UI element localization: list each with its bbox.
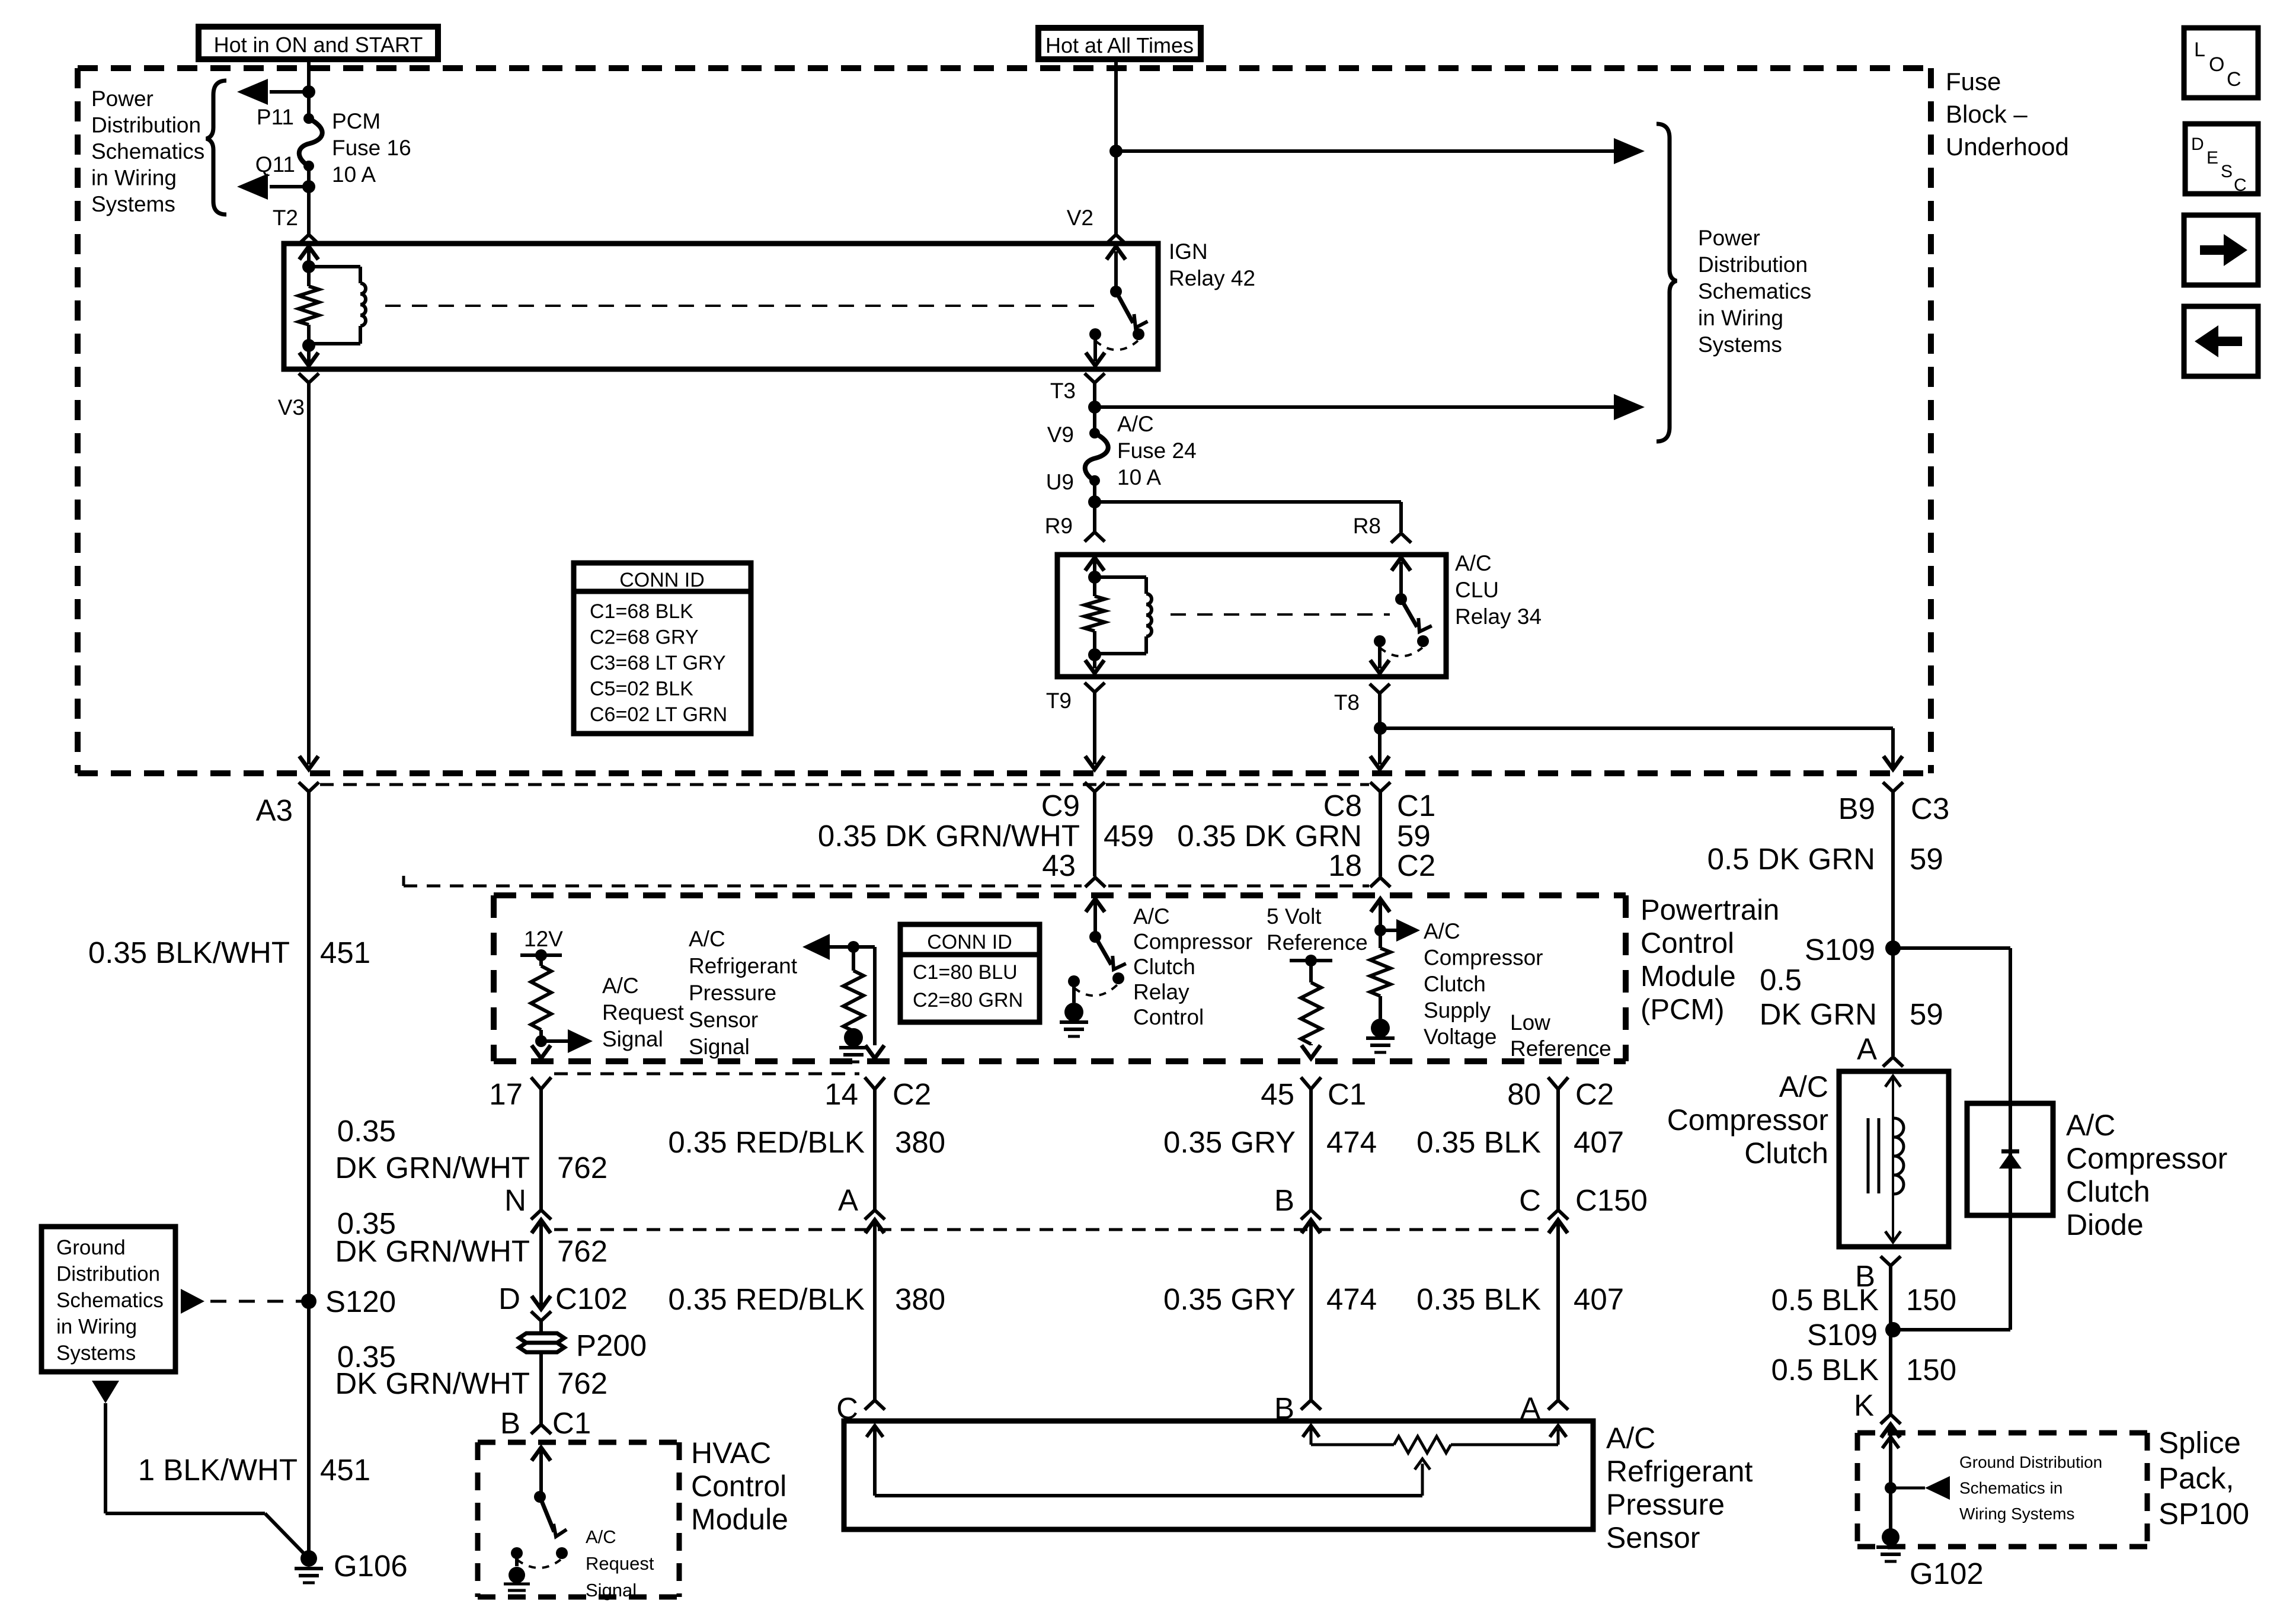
clutch internal wire with arrows (1892, 1077, 1894, 1241)
svg-text:C: C (2227, 68, 2241, 91)
svg-text:407: 407 (1574, 1282, 1624, 1316)
svg-text:474: 474 (1326, 1125, 1377, 1159)
svg-text:D: D (498, 1282, 520, 1315)
svg-text:T9: T9 (1046, 689, 1072, 713)
svg-text:0.35 RED/BLK: 0.35 RED/BLK (668, 1125, 865, 1159)
svg-text:150: 150 (1906, 1283, 1956, 1317)
arrow below Ground Distribution box to G106 (92, 1381, 119, 1403)
svg-text:Control: Control (1133, 1005, 1204, 1029)
svg-text:762: 762 (557, 1234, 607, 1268)
svg-text:Clutch: Clutch (1133, 955, 1195, 979)
svg-text:Block –: Block – (1946, 100, 2028, 128)
svg-text:10 A: 10 A (332, 162, 376, 187)
relay A/C CLU Relay 34 box (1057, 555, 1446, 677)
svg-text:0.35 DK GRN: 0.35 DK GRN (1177, 819, 1362, 853)
svg-text:Refrigerant: Refrigerant (689, 954, 798, 978)
label box: Hot at All Times (1038, 28, 1201, 59)
svg-text:Reference: Reference (1267, 930, 1368, 955)
svg-text:Low: Low (1510, 1010, 1550, 1035)
junction + arrow A/C Request Signal (535, 1035, 547, 1047)
svg-text:Power: Power (91, 87, 154, 111)
svg-text:C8: C8 (1323, 789, 1362, 822)
connector A (clutch) (1883, 1057, 1903, 1067)
IGN relay bottom arrow out (307, 345, 311, 364)
svg-text:Splice: Splice (2159, 1426, 2241, 1459)
svg-text:Systems: Systems (91, 192, 175, 216)
IGN relay resistor (307, 267, 311, 286)
svg-text:C1: C1 (1397, 789, 1435, 822)
svg-text:CONN ID: CONN ID (927, 931, 1012, 953)
CLU relay coil to switch dashed link (1171, 613, 1390, 616)
wire down to pin 17 with arrow (539, 1041, 543, 1045)
connector 43 (PCM top) (1085, 878, 1105, 887)
svg-text:G106: G106 (334, 1549, 408, 1583)
legend box left-arrow (2184, 306, 2258, 376)
CLU relay resistor (1093, 577, 1096, 596)
connector T9 (1085, 683, 1105, 692)
HVAC Control Module dashed box (478, 1442, 679, 1597)
svg-text:C1=80 BLU: C1=80 BLU (913, 961, 1018, 984)
svg-text:B: B (1274, 1183, 1294, 1217)
svg-text:Compressor: Compressor (1667, 1103, 1828, 1137)
connector pin 17 (531, 1077, 551, 1089)
svg-text:459: 459 (1104, 819, 1154, 853)
svg-text:S109: S109 (1807, 1318, 1878, 1352)
svg-text:0.35 DK GRN/WHT: 0.35 DK GRN/WHT (818, 819, 1080, 853)
wire down to G102 (1889, 1488, 1892, 1537)
svg-text:A/C: A/C (2066, 1109, 2115, 1142)
svg-text:762: 762 (557, 1151, 607, 1185)
svg-text:V2: V2 (1067, 206, 1093, 230)
Fuse Block - Underhood label (1946, 68, 2069, 161)
Splice Pack SP100 dashed box (1857, 1433, 2147, 1547)
svg-text:Module: Module (1641, 961, 1736, 993)
svg-text:A/C: A/C (1424, 919, 1460, 943)
svg-text:C2: C2 (893, 1077, 931, 1111)
svg-text:Compressor: Compressor (1424, 946, 1543, 970)
svg-text:451: 451 (320, 1453, 370, 1487)
brace right (power distribution group) (1657, 124, 1677, 441)
svg-text:43: 43 (1042, 849, 1076, 882)
wire S109 down to clutch, label A (1891, 948, 1895, 1056)
CLU relay coil (parallel) (1095, 575, 1146, 579)
svg-text:A/C: A/C (689, 927, 725, 951)
CLU relay coil input arrow (1093, 559, 1096, 577)
brace left (power distribution group) (206, 81, 226, 215)
svg-text:C2=68 GRY: C2=68 GRY (590, 626, 699, 649)
svg-text:C2: C2 (1397, 849, 1435, 882)
svg-text:0.5 DK GRN: 0.5 DK GRN (1707, 842, 1875, 876)
svg-text:S: S (2221, 162, 2233, 181)
svg-text:Control: Control (1641, 927, 1734, 959)
svg-text:C1: C1 (1328, 1077, 1366, 1111)
fuse A/C Fuse 24 10 A (1089, 428, 1100, 438)
CONN ID table (PCM) (900, 924, 1040, 1022)
svg-text:DK GRN/WHT: DK GRN/WHT (335, 1366, 530, 1400)
connector pin 45 / C1 (1301, 1077, 1321, 1089)
svg-text:Compressor: Compressor (1133, 930, 1253, 954)
svg-text:CLU: CLU (1455, 578, 1499, 602)
svg-text:A/C: A/C (1133, 904, 1170, 929)
svg-text:10 A: 10 A (1117, 465, 1161, 489)
svg-text:R8: R8 (1353, 514, 1381, 538)
svg-text:in Wiring: in Wiring (1698, 306, 1783, 330)
svg-text:0.5: 0.5 (1760, 963, 1802, 997)
svg-text:0.35 BLK/WHT: 0.35 BLK/WHT (88, 936, 290, 969)
svg-text:Signal: Signal (586, 1580, 637, 1601)
svg-text:Clutch: Clutch (2066, 1175, 2150, 1208)
svg-text:C1=68 BLK: C1=68 BLK (590, 600, 693, 623)
svg-text:DK GRN/WHT: DK GRN/WHT (335, 1234, 530, 1268)
svg-text:C6=02 LT GRN: C6=02 LT GRN (590, 703, 727, 726)
connector row dashed line (below PCM, pins 17-14) (554, 1073, 859, 1076)
connector V3 (299, 373, 319, 383)
relay IGN Relay 42 box (284, 244, 1158, 369)
svg-text:PCM: PCM (332, 109, 380, 133)
IGN relay coil (parallel) (309, 265, 360, 268)
resistor (clutch supply voltage) to ground (1379, 930, 1382, 948)
sensor wiper arrow (1421, 1464, 1424, 1496)
svg-text:in Wiring: in Wiring (56, 1315, 137, 1339)
svg-text:Fuse 24: Fuse 24 (1117, 438, 1197, 463)
svg-text:380: 380 (895, 1282, 945, 1316)
svg-text:A/C: A/C (1455, 551, 1492, 575)
label: Power Distribution Schematics in Wiring Systems (right) (1698, 226, 1811, 357)
wire T3 down to A/C Fuse 24 (1093, 407, 1096, 433)
svg-text:Control: Control (691, 1470, 786, 1503)
svg-text:Underhood: Underhood (1946, 133, 2069, 161)
5V reference rail bar + resistor down to pin 45 (1290, 959, 1332, 962)
arrow to Power Distribution (upper left) (270, 90, 309, 94)
svg-text:Clutch: Clutch (1424, 972, 1486, 996)
svg-text:150: 150 (1906, 1353, 1956, 1387)
svg-text:SP100: SP100 (2159, 1497, 2249, 1531)
svg-text:DK GRN: DK GRN (1760, 997, 1877, 1031)
svg-text:Request: Request (586, 1553, 654, 1574)
svg-text:C2=80 GRN: C2=80 GRN (913, 989, 1023, 1012)
svg-text:Diode: Diode (2066, 1208, 2144, 1241)
splice S120 (301, 1294, 316, 1309)
svg-text:451: 451 (320, 936, 370, 969)
svg-text:Clutch: Clutch (1744, 1137, 1828, 1170)
svg-text:Signal: Signal (602, 1027, 663, 1051)
svg-text:C2: C2 (1575, 1077, 1614, 1111)
svg-text:P11: P11 (257, 105, 294, 129)
svg-text:A/C: A/C (586, 1526, 616, 1547)
clutch plates (parallel bars) (1867, 1118, 1870, 1193)
svg-text:K: K (1854, 1388, 1874, 1422)
svg-text:S120: S120 (325, 1285, 396, 1318)
sensor pin A arrow + wire from potentiometer (1451, 1443, 1558, 1446)
svg-text:Module: Module (691, 1503, 788, 1536)
ground G102 (1882, 1528, 1900, 1546)
svg-text:A3: A3 (256, 793, 293, 827)
svg-text:R9: R9 (1045, 514, 1073, 538)
svg-text:IGN: IGN (1169, 239, 1208, 264)
A/C Compressor Clutch Diode box (1967, 1103, 2053, 1215)
connector T2 (299, 235, 319, 244)
IGN relay switch (1110, 286, 1122, 297)
wire: V2 junction right to Power Distribution arrow (1116, 149, 1614, 153)
legend box right-arrow (2184, 215, 2258, 285)
ground G106 (300, 1550, 317, 1567)
svg-text:C3=68 LT GRY: C3=68 LT GRY (590, 652, 726, 674)
svg-text:T3: T3 (1050, 379, 1076, 403)
svg-text:A/C: A/C (1606, 1422, 1655, 1455)
svg-text:Pressure: Pressure (1606, 1488, 1725, 1521)
svg-text:Hot in ON and START: Hot in ON and START (214, 33, 423, 57)
svg-text:14: 14 (824, 1077, 858, 1111)
svg-text:5 Volt: 5 Volt (1267, 904, 1322, 929)
svg-text:C1: C1 (552, 1406, 591, 1440)
svg-text:Pack,: Pack, (2159, 1461, 2234, 1495)
diode wire through box (2009, 1103, 2012, 1215)
connector K (inline) (1881, 1414, 1901, 1424)
connector A3 (299, 782, 319, 792)
svg-text:C102: C102 (555, 1282, 628, 1315)
CLU relay bottom arrow out (1093, 655, 1096, 668)
IGN relay coil to switch dashed link (385, 305, 1104, 307)
svg-text:C150: C150 (1575, 1183, 1648, 1217)
svg-text:Supply: Supply (1424, 998, 1491, 1023)
svg-text:Schematics: Schematics (56, 1289, 164, 1312)
wire: Hot at All Times down to IGN relay (1114, 59, 1118, 235)
diode symbol (2001, 1150, 2019, 1154)
Powertrain Control Module (PCM) dashed box (494, 895, 1626, 1061)
svg-text:Schematics: Schematics (91, 139, 204, 164)
label: Power Distribution Schematics in Wiring Systems (left) (91, 87, 204, 216)
svg-text:P200: P200 (576, 1329, 647, 1362)
svg-text:B9: B9 (1838, 792, 1875, 825)
svg-text:80: 80 (1507, 1077, 1541, 1111)
CONN ID table (fuse block) (574, 563, 751, 734)
svg-text:Ground Distribution: Ground Distribution (1959, 1453, 2102, 1471)
svg-text:C: C (2234, 175, 2247, 195)
wire T3 junction right to Power Distribution arrow (1088, 401, 1101, 414)
wire T8 down through fuse block edge (1370, 756, 1389, 769)
svg-text:A/C: A/C (1117, 412, 1154, 436)
connector R8 (1391, 533, 1411, 543)
connector row dashed line (fuse block underside) (320, 783, 1369, 786)
svg-text:L: L (2194, 39, 2205, 61)
svg-text:59: 59 (1910, 997, 1943, 1031)
svg-text:Schematics: Schematics (1698, 279, 1811, 303)
svg-text:Systems: Systems (56, 1342, 136, 1365)
svg-text:380: 380 (895, 1125, 945, 1159)
svg-text:DK GRN/WHT: DK GRN/WHT (335, 1151, 530, 1185)
svg-text:Fuse 16: Fuse 16 (332, 136, 411, 160)
svg-text:17: 17 (489, 1077, 523, 1111)
svg-text:A: A (1857, 1032, 1877, 1066)
svg-text:Fuse: Fuse (1946, 68, 2001, 95)
splice pack junction + arrow to Ground Distribution (1885, 1482, 1897, 1494)
svg-text:HVAC: HVAC (691, 1436, 771, 1470)
A/C Compressor Clutch box (1839, 1071, 1949, 1247)
svg-text:Schematics in: Schematics in (1959, 1479, 2062, 1497)
arrow to Power Distribution (lower left) (270, 185, 309, 188)
svg-text:0.35 GRY: 0.35 GRY (1163, 1282, 1296, 1316)
svg-text:V3: V3 (278, 395, 305, 420)
svg-text:Relay 34: Relay 34 (1455, 604, 1542, 629)
branch wire from S109 to diode column (1893, 946, 2010, 950)
svg-text:0.35 BLK: 0.35 BLK (1416, 1125, 1541, 1159)
connector T3 (1085, 373, 1105, 383)
svg-text:A/C: A/C (1779, 1070, 1828, 1103)
CLU relay switch (1395, 593, 1407, 605)
left arrow + wire (sensor signal) (802, 934, 830, 960)
svg-text:E: E (2207, 148, 2218, 168)
svg-text:Distribution: Distribution (91, 113, 201, 137)
wire B9 crossing fuse block edge (1884, 756, 1902, 769)
svg-text:Power: Power (1698, 226, 1760, 250)
connector B9 / C3 (1883, 782, 1903, 792)
svg-text:Refrigerant: Refrigerant (1606, 1455, 1753, 1488)
connector pin 14 / C2 (865, 1077, 885, 1089)
svg-text:Pressure: Pressure (689, 981, 776, 1005)
svg-text:Systems: Systems (1698, 332, 1782, 357)
svg-text:Sensor: Sensor (1606, 1521, 1700, 1554)
svg-text:Voltage: Voltage (1424, 1025, 1496, 1049)
wire down to pin 14 with arrow (873, 947, 877, 1045)
label Powertrain Control Module (PCM) (1641, 894, 1779, 1026)
svg-text:T8: T8 (1334, 690, 1360, 715)
svg-text:0.5 BLK: 0.5 BLK (1771, 1283, 1879, 1317)
svg-text:N: N (504, 1183, 526, 1217)
junction T8 to B9 branch (1374, 722, 1387, 735)
clutch coil (1894, 1118, 1904, 1194)
connector R9 (1085, 532, 1105, 542)
resistor (sensor signal) to ground (852, 947, 855, 971)
label box: Hot in ON and START (199, 27, 438, 59)
svg-text:0.35 GRY: 0.35 GRY (1163, 1125, 1296, 1159)
svg-text:Relay: Relay (1133, 980, 1189, 1004)
legend box LOC (2184, 28, 2258, 98)
svg-text:O: O (2209, 53, 2224, 76)
svg-text:0.5 BLK: 0.5 BLK (1771, 1353, 1879, 1387)
svg-text:Signal: Signal (689, 1035, 750, 1059)
svg-text:C9: C9 (1041, 789, 1080, 822)
wire C2 pin down from top, junction, arrow right (1371, 899, 1390, 912)
Fuse Block - Underhood dashed outline (78, 68, 1931, 773)
connector row dashed line (above PCM) (402, 876, 405, 886)
connector pin 80 / C2 (1548, 1077, 1568, 1089)
svg-text:1 BLK/WHT: 1 BLK/WHT (138, 1453, 298, 1487)
svg-text:Compressor: Compressor (2066, 1142, 2227, 1175)
svg-text:762: 762 (557, 1366, 607, 1400)
svg-text:Distribution: Distribution (56, 1263, 160, 1286)
IGN relay coil input arrow (307, 248, 311, 267)
svg-text:Reference: Reference (1510, 1036, 1611, 1061)
svg-text:C5=02 BLK: C5=02 BLK (590, 678, 693, 700)
wire from U9 junction right to R8 (1095, 500, 1401, 504)
svg-text:U9: U9 (1046, 470, 1074, 494)
splice S109 (upper) (1885, 940, 1901, 956)
svg-text:45: 45 (1261, 1077, 1294, 1111)
inline connector P200 (519, 1333, 564, 1352)
A/C Refrigerant Pressure Sensor box (844, 1421, 1593, 1529)
dashed wire from Ground Distribution box to S120 (181, 1289, 204, 1314)
svg-text:Distribution: Distribution (1698, 252, 1808, 277)
diode wire down to S109 lower (2009, 1215, 2012, 1330)
connector row C102/C150 dashed line (554, 1228, 1544, 1231)
svg-text:C: C (1519, 1183, 1541, 1217)
wire below fuse to R9 (1093, 481, 1096, 532)
potentiometer resistor (1394, 1436, 1451, 1453)
wire V3 down through fuse block edge (299, 756, 318, 769)
svg-text:474: 474 (1326, 1282, 1377, 1316)
fuse PCM Fuse 16 10 A (303, 113, 314, 124)
svg-text:Relay 42: Relay 42 (1169, 266, 1255, 290)
svg-text:S109: S109 (1805, 933, 1875, 966)
splice S109 (lower) (1885, 1322, 1901, 1337)
svg-text:Q11: Q11 (255, 152, 295, 177)
svg-text:in Wiring: in Wiring (91, 166, 177, 190)
label box: Ground Distribution Schematics in Wiring Systems (41, 1227, 175, 1372)
svg-text:0.35: 0.35 (337, 1114, 396, 1148)
svg-text:0.35 BLK: 0.35 BLK (1416, 1282, 1541, 1316)
svg-text:Hot at All Times: Hot at All Times (1045, 33, 1194, 57)
svg-text:407: 407 (1574, 1125, 1624, 1159)
svg-text:A/C: A/C (602, 974, 639, 998)
svg-text:CONN ID: CONN ID (619, 569, 705, 591)
connector V2 (1106, 235, 1126, 244)
svg-text:12V: 12V (524, 927, 563, 951)
svg-text:T2: T2 (273, 206, 298, 230)
svg-text:59: 59 (1397, 819, 1431, 853)
svg-text:C3: C3 (1911, 792, 1949, 825)
wire: Hot in ON and START down to IGN relay (307, 59, 311, 119)
svg-text:0.35 RED/BLK: 0.35 RED/BLK (668, 1282, 865, 1316)
connector T8 (1370, 684, 1390, 693)
legend box DESC (2185, 124, 2258, 195)
svg-text:B: B (500, 1406, 520, 1440)
resistor (A/C request pull-up) (539, 955, 543, 966)
svg-text:V9: V9 (1047, 422, 1074, 447)
svg-text:Request: Request (602, 1000, 685, 1025)
svg-text:(PCM): (PCM) (1641, 994, 1725, 1026)
wire P200 down to B/C1 (539, 1354, 543, 1425)
switch A/C Request Signal (HVAC) (534, 1491, 546, 1503)
svg-text:G102: G102 (1910, 1557, 1984, 1590)
switch A/C Compressor Clutch Relay Control (1089, 931, 1101, 943)
connector C8/C1 (fuse block bottom) (1370, 782, 1390, 792)
sensor pin C arrow + wiper wire (866, 1426, 883, 1437)
connector C2 (PCM top) (1370, 878, 1390, 887)
sensor pin B arrow + wire to potentiometer (1303, 1426, 1319, 1437)
svg-text:Powertrain: Powertrain (1641, 894, 1779, 926)
svg-text:Wiring Systems: Wiring Systems (1959, 1505, 2074, 1523)
svg-text:59: 59 (1910, 842, 1943, 876)
connector C9 (fuse block bottom) (1085, 782, 1105, 792)
svg-text:18: 18 (1328, 849, 1362, 882)
svg-text:A: A (838, 1183, 858, 1217)
svg-text:D: D (2191, 135, 2204, 154)
svg-text:Ground: Ground (56, 1236, 126, 1259)
arrow into splice pack (1882, 1437, 1899, 1448)
svg-text:Sensor: Sensor (689, 1008, 758, 1032)
PCM 12V rail bar (520, 953, 562, 957)
wire T9 down through fuse block edge (1085, 756, 1104, 769)
